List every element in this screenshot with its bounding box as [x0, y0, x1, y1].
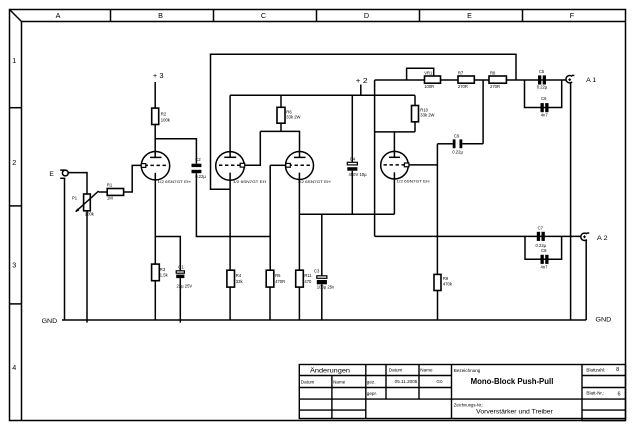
connector A2 output jack [581, 233, 589, 241]
svg-text:8: 8 [616, 367, 619, 373]
svg-text:100k: 100k [161, 118, 171, 123]
svg-text:+ 2: + 2 [356, 78, 368, 85]
wire A2 output line [375, 235, 581, 237]
svg-text:33k 2W: 33k 2W [420, 113, 434, 118]
svg-text:GND: GND [595, 316, 611, 323]
wire R11 bottom to ground bus [298, 287, 300, 320]
svg-text:4n7: 4n7 [541, 113, 549, 118]
wire P1 wiper to R1 [99, 191, 108, 193]
svg-text:1/2 6SN7GT EH: 1/2 6SN7GT EH [397, 179, 430, 184]
svg-text:F: F [570, 11, 575, 20]
svg-text:R4: R4 [236, 273, 242, 278]
wire A1 shield down to ground bus [570, 83, 572, 320]
svg-text:C7: C7 [538, 226, 544, 231]
capacitor C4 electrolytic [347, 95, 367, 177]
wire C4 bottom to cathode line [351, 171, 353, 215]
wire output line y80 [375, 79, 567, 81]
svg-text:R7: R7 [458, 71, 464, 76]
resistor R1 [107, 183, 124, 201]
rheostat VR1 wiper loop [407, 68, 434, 80]
connector A1 output jack [566, 75, 574, 82]
wire C2 bottom to V3 grid node [196, 173, 270, 236]
svg-text:1M: 1M [107, 195, 113, 200]
wire V1 anode junction to C2 top [155, 139, 196, 164]
wire R1 to V1 grid [124, 165, 142, 192]
svg-text:R8: R8 [490, 71, 496, 76]
triode U4 (1/2 6SN7GT EH) [381, 151, 430, 183]
svg-text:E: E [49, 171, 54, 178]
svg-text:gez.: gez. [367, 379, 376, 384]
frame row numbers [12, 56, 16, 372]
svg-text:B: B [158, 11, 163, 20]
svg-text:100R: 100R [424, 84, 434, 89]
resistor R11 [296, 270, 313, 287]
potentiometer P1 [72, 191, 99, 217]
svg-text:Gö: Gö [436, 379, 443, 384]
triode U2 (1/2 6SN7GT EH) [216, 152, 266, 185]
wire rail to V2 anode [229, 95, 231, 157]
wire V4 anode node vertical to output line and A2 line [374, 80, 376, 236]
triode U1 (1/2 6SN7GT EH) [141, 152, 190, 185]
capacitor C1 electrolytic [176, 265, 192, 289]
svg-text:450V 10µ: 450V 10µ [349, 172, 368, 177]
svg-text:2: 2 [12, 158, 16, 167]
svg-text:P1: P1 [72, 195, 78, 200]
connector E input jack [60, 170, 68, 178]
svg-text:C2: C2 [195, 157, 201, 162]
wire V3 grid node down to R5 [269, 165, 271, 271]
wire V4 grid to right [409, 164, 438, 166]
wire V4 cathode to cathode line [393, 172, 395, 214]
resistor R9 [434, 274, 453, 290]
svg-text:R1: R1 [107, 183, 113, 188]
triode U3 (1/2 6SN7GT EH) [286, 152, 331, 184]
resistor R4 [227, 270, 244, 287]
resistor R8 [489, 71, 506, 90]
svg-text:C3: C3 [314, 268, 320, 273]
wire R2 bottom to V1 anode [154, 125, 156, 158]
svg-text:33k: 33k [236, 279, 244, 284]
wire feedback loop from output line to V2 cathode [211, 54, 517, 189]
resistor R7 [458, 71, 474, 90]
wire C8 branch [525, 236, 562, 259]
svg-text:C8: C8 [541, 248, 547, 253]
svg-text:Mono-Block Push-Pull: Mono-Block Push-Pull [471, 377, 554, 386]
wire +2 supply rail [230, 94, 415, 96]
capacitor C8 [541, 248, 549, 269]
svg-text:4n7: 4n7 [541, 265, 549, 270]
resistor R3 [152, 264, 169, 281]
capacitor C9 [437, 133, 483, 154]
svg-text:D: D [364, 11, 369, 20]
wire V3 cathode down to R11 [298, 173, 300, 272]
svg-text:C1: C1 [178, 265, 184, 270]
svg-text:270R: 270R [490, 84, 500, 89]
wire V3 grid to grid-leak node [270, 164, 286, 166]
title block texts [301, 366, 621, 415]
capacitor C3 electrolytic [314, 214, 335, 289]
wire R9 bottom to ground bus [437, 291, 439, 321]
svg-text:Blattzahl:: Blattzahl: [586, 367, 605, 372]
wire R4 bottom to ground bus [229, 287, 231, 320]
svg-text:R11: R11 [304, 273, 312, 278]
svg-text:Name: Name [420, 367, 433, 372]
svg-text:1: 1 [12, 56, 16, 65]
svg-text:470R: 470R [275, 279, 285, 284]
wire V2 grid to V3 anode node [245, 131, 261, 165]
wire anode drop to V4 plate [393, 132, 395, 157]
wire P1 bottom to ground bus [86, 211, 88, 323]
frame column letters [56, 11, 575, 20]
svg-text:1/2 6SN7GT EH: 1/2 6SN7GT EH [158, 179, 191, 184]
wire A2 shield down to ground bus [585, 240, 587, 320]
resistor R6 [277, 95, 301, 131]
svg-text:A 2: A 2 [597, 235, 608, 242]
wire C3 bottom to ground bus [321, 284, 323, 320]
wire R6 bottom junction to V3 anode and V2 grid [260, 131, 299, 157]
svg-text:E: E [467, 11, 472, 20]
wire V1 cathode junction to C1 top [155, 237, 180, 271]
wire +2 tick to rail [360, 85, 362, 96]
svg-text:C4: C4 [350, 157, 356, 162]
svg-text:A: A [56, 11, 61, 20]
svg-text:VR1: VR1 [424, 71, 433, 76]
svg-text:R5: R5 [275, 273, 281, 278]
svg-text:1.5k: 1.5k [160, 273, 169, 278]
svg-text:33k 2W: 33k 2W [286, 115, 300, 120]
svg-text:C9: C9 [454, 133, 460, 138]
svg-text:270R: 270R [458, 84, 468, 89]
resistor R10 [412, 95, 435, 132]
svg-text:0.22µ: 0.22µ [452, 149, 463, 154]
wire V4 grid node vertical to R9 [436, 144, 438, 275]
capacitor C5 [537, 69, 548, 89]
resistor R5 [266, 270, 285, 287]
svg-text:05.11.2005: 05.11.2005 [395, 379, 418, 384]
wire C9 right up to output line [482, 80, 484, 144]
svg-text:Blatt-Nr.:: Blatt-Nr.: [586, 390, 604, 395]
wire V1 cathode down to R3 [154, 173, 156, 264]
wire E jack shield to ground bus [64, 178, 66, 320]
svg-text:+ 3: + 3 [153, 73, 164, 80]
svg-text:Datum: Datum [389, 367, 403, 372]
wire +3 to R2 top [154, 82, 156, 108]
wire E jack to P1 top [68, 173, 87, 194]
svg-text:470k: 470k [443, 282, 453, 287]
svg-text:0.22µ: 0.22µ [537, 85, 548, 90]
capacitor C7 [536, 226, 547, 248]
svg-text:gepr.: gepr. [367, 391, 377, 396]
svg-text:R9: R9 [443, 276, 449, 281]
svg-text:R3: R3 [160, 267, 166, 272]
svg-text:470: 470 [304, 279, 312, 284]
svg-text:R2: R2 [161, 112, 167, 117]
svg-text:Vorverstärker und Treiber: Vorverstärker und Treiber [476, 409, 553, 416]
wire C1 bottom to ground bus [179, 278, 181, 323]
capacitor C6 [541, 96, 549, 117]
wire V4 anode junction horizontal [375, 131, 415, 133]
capacitor C2 [192, 157, 207, 179]
rheostat VR1 [424, 71, 440, 90]
svg-text:C6: C6 [541, 96, 547, 101]
svg-text:Datum: Datum [301, 379, 315, 384]
wire C6 branch [525, 80, 562, 108]
svg-text:Bezeichnung: Bezeichnung [454, 368, 481, 373]
wire R5 bottom to ground bus [269, 287, 271, 320]
svg-text:1/2 6SN7GT EH: 1/2 6SN7GT EH [233, 179, 266, 184]
svg-text:Zeichnungs-Nr.:: Zeichnungs-Nr.: [454, 402, 484, 407]
svg-text:Name: Name [333, 379, 346, 384]
svg-text:4: 4 [12, 363, 16, 372]
wire cathode line V3 to V4 [299, 213, 394, 215]
svg-text:C5: C5 [539, 69, 545, 74]
ground bus [62, 319, 586, 321]
title block grid [299, 365, 625, 421]
svg-text:3: 3 [12, 261, 16, 270]
svg-text:C: C [261, 11, 266, 20]
svg-text:Änderungen: Änderungen [310, 366, 350, 374]
svg-text:GND: GND [42, 318, 58, 325]
svg-text:6: 6 [617, 392, 620, 398]
svg-text:A 1: A 1 [586, 77, 596, 84]
resistor R2 [152, 108, 171, 124]
wire R3 bottom to ground bus [154, 281, 156, 320]
svg-text:1/2 6SN7GT EH: 1/2 6SN7GT EH [298, 179, 331, 184]
svg-text:22µ 25V: 22µ 25V [177, 284, 193, 289]
svg-text:100µ 25v: 100µ 25v [317, 285, 335, 290]
wire V2 cathode down to R4 [229, 173, 231, 272]
